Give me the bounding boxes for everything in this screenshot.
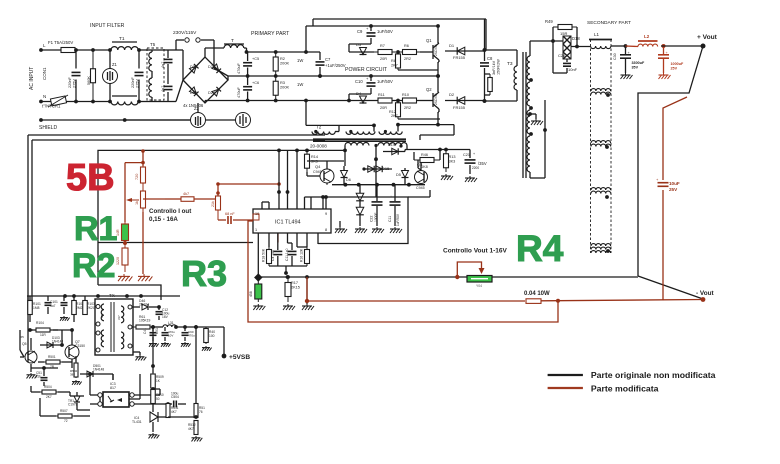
svg-text:20R: 20R [380, 57, 387, 61]
svg-text:21k: 21k [211, 201, 215, 207]
capacitor C51 [31, 366, 58, 386]
svg-text:R7: R7 [380, 44, 385, 48]
wire L line to T5 [139, 50, 152, 102]
diode D5 [396, 168, 409, 185]
resistor R46 1K8 [414, 150, 440, 170]
wire drive box [305, 197, 409, 244]
resistor R16 green [249, 277, 265, 310]
svg-text:R14: R14 [311, 155, 318, 159]
wire standby top rail [27, 294, 180, 298]
svg-text:1uF/50V: 1uF/50V [377, 29, 393, 34]
wire standby verticals [151, 325, 198, 398]
resistor R8 2K7 [391, 52, 438, 70]
svg-text:10nF: 10nF [568, 67, 578, 72]
svg-text:2R2: 2R2 [404, 57, 411, 61]
wire B+ rail riser [305, 26, 307, 52]
svg-text:Q4: Q4 [315, 164, 321, 169]
svg-text:C4 15n: C4 15n [271, 250, 275, 261]
varistor Z2 [125, 103, 206, 128]
svg-text:D3: D3 [356, 42, 362, 47]
resistor R13 3K3 [441, 150, 455, 181]
transformer T choke [205, 38, 247, 57]
ground TX [133, 352, 146, 360]
resistor R510 [151, 389, 164, 404]
resistor R10 2R2 [396, 93, 420, 110]
wire N line [39, 94, 110, 103]
wire opto right [134, 389, 160, 410]
svg-text:R16 12K: R16 12K [300, 248, 304, 262]
svg-text:R49: R49 [545, 19, 553, 24]
diode D14 [383, 143, 405, 155]
transformer T1 common-mode choke [111, 36, 138, 105]
capacitor C504 [153, 392, 186, 408]
resistor R7 20R [374, 44, 396, 61]
capacitor 68nF modified [218, 212, 253, 224]
inductor L2 modified [626, 34, 658, 47]
resistor R104 [28, 321, 58, 337]
svg-text:R13: R13 [449, 155, 456, 159]
svg-text:R10: R10 [402, 93, 409, 97]
wire T3 right side [530, 100, 547, 178]
svg-text:25V: 25V [671, 67, 678, 71]
svg-text:76: 76 [199, 410, 203, 414]
svg-text:PRIMARY PART: PRIMARY PART [251, 31, 290, 37]
svg-text:AC INPUT: AC INPUT [29, 67, 35, 90]
wire red to DTC [216, 182, 281, 193]
capacitor C30 3300uF [613, 44, 645, 79]
resistor R4 snubber [485, 74, 493, 95]
ground mid extra [302, 277, 314, 310]
svg-text:C91: C91 [155, 328, 159, 334]
resistor 21k modified [211, 191, 221, 220]
label POWER CIRCUIT [345, 67, 388, 73]
resistor R103 [83, 296, 96, 315]
inductor L31 [153, 321, 206, 329]
wire red sense [305, 277, 309, 303]
resistor 720 modified [135, 166, 146, 184]
potentiometer I out modified [126, 184, 146, 212]
svg-text:D2: D2 [449, 92, 455, 97]
transformer T3 [485, 41, 533, 178]
label R3 [181, 253, 227, 294]
svg-text:R46: R46 [421, 153, 428, 157]
wire primary top rail y52 [245, 50, 320, 54]
svg-text:D18: D18 [572, 36, 580, 41]
wire drive bottom right [408, 190, 430, 197]
wire standby left rail [27, 296, 29, 355]
svg-text:0.04 10W: 0.04 10W [524, 291, 550, 297]
svg-text:R17: R17 [291, 281, 298, 285]
svg-text:9: 9 [325, 212, 327, 216]
svg-text:C3150: C3150 [75, 344, 85, 348]
wire opto to control [100, 374, 140, 402]
svg-text:14R: 14R [116, 229, 120, 236]
svg-text:1uF/50V: 1uF/50V [396, 213, 400, 226]
ground drive left [335, 221, 347, 233]
svg-text:TX: TX [109, 293, 115, 298]
svg-text:1000uF: 1000uF [671, 62, 684, 66]
wire 5B rail [98, 149, 345, 286]
svg-text:470uF: 470uF [237, 63, 241, 74]
svg-text:CON1: CON1 [42, 67, 47, 80]
diode D1 FR155 [445, 43, 486, 60]
resistor R512 [168, 415, 202, 441]
transformer TX [95, 293, 133, 355]
resistor R3 200K [273, 76, 303, 101]
svg-text:458: 458 [249, 291, 253, 297]
svg-text:+: + [390, 195, 392, 199]
svg-text:1W: 1W [297, 82, 303, 87]
svg-text:C7: C7 [325, 57, 331, 62]
wire primary mid rail y76 [228, 74, 440, 80]
svg-text:35V: 35V [632, 66, 639, 70]
resistor R12 2K7 [389, 101, 440, 120]
svg-text:20R: 20R [380, 106, 387, 110]
capacitor C5 470uF [237, 52, 259, 76]
resistor R18 50K [262, 247, 272, 266]
wire L line [39, 43, 110, 52]
svg-text:200K: 200K [280, 61, 289, 66]
svg-text:Controllo Vout 1-16V: Controllo Vout 1-16V [443, 248, 507, 255]
svg-text:Z2: Z2 [194, 106, 200, 111]
svg-text:+: + [473, 152, 475, 156]
transistor Q2 [420, 76, 439, 119]
capacitor C12 [156, 305, 170, 320]
label SECONDARY PART [587, 20, 631, 26]
svg-text:2R2: 2R2 [404, 106, 411, 110]
capacitor C26 [553, 41, 578, 73]
capacitor C8 snubber [480, 19, 501, 103]
wire lower rail [348, 94, 350, 101]
svg-text:22u: 22u [36, 375, 42, 379]
diode D103 [40, 330, 64, 348]
resistor R6 2R2 [396, 44, 420, 61]
svg-text:8: 8 [325, 228, 327, 232]
capacitor C6 470uF [237, 76, 259, 101]
svg-text:1000F: 1000F [374, 213, 378, 222]
capacitor C4 15n [271, 243, 282, 266]
potentiometer Vout modified [455, 262, 492, 288]
resistor 4k7 modified [175, 192, 218, 201]
svg-text:L2: L2 [644, 34, 650, 39]
resistor R507 [40, 398, 90, 423]
transistor Q4 [307, 161, 344, 185]
resistor R2 1220 modified [116, 243, 128, 273]
svg-text:Parte originale non modificata: Parte originale non modificata [591, 370, 716, 380]
svg-text:SECONDARY PART: SECONDARY PART [587, 20, 631, 26]
wire red return loop [248, 221, 558, 322]
svg-text:4u7: 4u7 [50, 304, 56, 308]
svg-text:C10: C10 [355, 79, 363, 84]
resistor R49 15R [545, 19, 577, 47]
wire red rail 0.04 [307, 291, 550, 301]
svg-text:+ Vout: + Vout [697, 34, 718, 41]
zener D4 [356, 91, 367, 103]
svg-text:2K7: 2K7 [391, 114, 398, 118]
svg-text:4K7: 4K7 [188, 427, 194, 431]
capacitor C1 [68, 48, 81, 103]
component TL431 IC4 [132, 410, 168, 438]
svg-text:R504: R504 [44, 385, 52, 389]
svg-text:16V: 16V [162, 315, 169, 319]
wire to +Vout [661, 34, 718, 49]
svg-text:D6: D6 [346, 178, 351, 182]
svg-text:FR155: FR155 [453, 105, 466, 110]
svg-text:4n7: 4n7 [161, 86, 165, 92]
svg-text:10uF: 10uF [669, 181, 680, 186]
transistor Q3 [415, 160, 428, 190]
wire second top rail [306, 24, 440, 28]
capacitor C22 1000uF [370, 183, 385, 233]
wire red 4k7 line [143, 198, 175, 200]
svg-text:25V: 25V [669, 187, 678, 192]
capacitor C3 4n7 [152, 50, 173, 70]
svg-text:2K7: 2K7 [46, 395, 52, 399]
svg-text:R501: R501 [48, 355, 56, 359]
capacitor C9 [349, 26, 393, 52]
wire control line y277 [254, 273, 638, 281]
capacitor C11 1n0 [285, 243, 297, 266]
resistor R11 20R [374, 93, 396, 110]
svg-text:N: N [43, 94, 46, 99]
resistor R501 [38, 355, 72, 369]
svg-text:Controllo I out: Controllo I out [149, 208, 191, 215]
wire B+ top rail [313, 19, 486, 50]
svg-text:Q2: Q2 [426, 87, 432, 92]
resistor R102 [72, 296, 84, 322]
svg-text:4k7: 4k7 [183, 192, 189, 196]
capacitor C2 after choke [131, 48, 144, 103]
switch 230V/115V [173, 30, 228, 76]
svg-text:C30: C30 [613, 53, 617, 60]
fuse F1 [48, 40, 84, 53]
svg-text:470u: 470u [188, 334, 195, 338]
bridge rectifier D21 D22 D23 D24 [168, 50, 228, 108]
svg-text:1K8: 1K8 [421, 165, 428, 169]
svg-text:D4: D4 [356, 91, 362, 96]
svg-text:275V: 275V [73, 79, 77, 88]
transformer secondary winding column [591, 40, 612, 254]
resistor R502 [70, 356, 82, 385]
resistor R509 [151, 361, 164, 391]
varistor Z1 [103, 48, 118, 103]
label 5B [66, 157, 115, 199]
svg-text:T5: T5 [150, 42, 156, 47]
wire R1 junction line [98, 242, 253, 244]
diode D6 [341, 166, 351, 185]
svg-text:100u: 100u [171, 392, 179, 396]
svg-text:t°/NTCR1: t°/NTCR1 [42, 104, 61, 109]
svg-text:720: 720 [135, 174, 139, 180]
resistor R14 3K3 [305, 150, 318, 172]
wire red into IC1 [253, 220, 278, 243]
svg-text:+5VSB: +5VSB [229, 354, 250, 361]
optocoupler IC3 817 [88, 372, 134, 407]
wire mid rail stub [436, 74, 440, 78]
diode D501 [80, 364, 113, 380]
wire secondary node [530, 39, 563, 43]
svg-text:3nF/1kV: 3nF/1kV [492, 60, 496, 75]
capacitor C92 [181, 327, 195, 347]
svg-text:POWER CIRCUIT: POWER CIRCUIT [345, 67, 388, 73]
label PRIMARY PART [251, 31, 290, 37]
wire shield line [39, 118, 236, 131]
wire drive loop right [398, 119, 454, 140]
svg-text:1k: 1k [135, 201, 139, 205]
ground T3 secondary mid [528, 112, 543, 125]
transformer T2 core [310, 139, 406, 148]
svg-text:326: 326 [100, 313, 104, 318]
svg-text:R8: R8 [391, 59, 396, 63]
svg-text:220nF: 220nF [131, 77, 135, 88]
svg-text:IC1 TL494: IC1 TL494 [275, 220, 301, 226]
svg-text:TL431: TL431 [132, 420, 142, 424]
resistor R1 green modified [116, 222, 129, 243]
svg-text:2K15: 2K15 [291, 286, 300, 290]
wire 5B rail bottom [98, 285, 161, 300]
transformer T2 primary [304, 99, 402, 135]
zener D7 [355, 185, 367, 233]
wire drive bus [332, 183, 425, 187]
svg-text:L1: L1 [594, 32, 600, 37]
capacitor C11 out [388, 185, 402, 233]
wire outer box top [28, 135, 325, 310]
wire IC1 top pins [262, 150, 325, 209]
svg-text:T1: T1 [119, 36, 125, 42]
transistor Q1 [420, 26, 439, 76]
svg-text:C11: C11 [388, 216, 392, 222]
node AC input labels [29, 67, 47, 90]
capacitor C41 [143, 327, 159, 347]
svg-text:T3: T3 [507, 61, 513, 67]
wire standby feed [20, 330, 24, 357]
wire inner box top [32, 140, 325, 310]
svg-text:817: 817 [110, 386, 116, 390]
wire red rail to -Vout [541, 299, 703, 303]
svg-text:D14: D14 [388, 143, 395, 147]
svg-text:1W: 1W [297, 58, 303, 63]
svg-text:275V: 275V [136, 79, 140, 88]
svg-text:1uF/50V: 1uF/50V [377, 79, 393, 84]
capacitor C21 [463, 150, 487, 183]
resistor R504 [31, 385, 70, 399]
label R4 [516, 228, 564, 269]
svg-text:2M2: 2M2 [76, 306, 83, 310]
diode D46 2N104 [133, 299, 159, 310]
wire sec rail [405, 148, 470, 152]
capacitor C10 [349, 76, 393, 94]
wire D18 to L1 [571, 45, 590, 49]
capacitor C101 [45, 296, 59, 314]
wire drive verticals [324, 195, 328, 209]
svg-text:1220: 1220 [116, 257, 120, 265]
svg-text:R3: R3 [181, 253, 227, 294]
svg-text:68 nF: 68 nF [225, 212, 235, 216]
capacitor C32 10uF modified [655, 177, 680, 192]
svg-text:R4: R4 [516, 228, 564, 269]
svg-text:4K7: 4K7 [171, 410, 177, 414]
svg-text:50: 50 [156, 397, 160, 401]
resistor R40 [202, 327, 215, 351]
svg-text:D5: D5 [396, 173, 401, 177]
thermistor NTCR1 [42, 95, 68, 109]
svg-text:11R: 11R [40, 333, 46, 337]
capacitor C7 1uF/250V [316, 52, 346, 78]
resistor R2 200K [273, 52, 303, 76]
resistor R1 560K [87, 48, 96, 103]
svg-text:C9: C9 [357, 29, 363, 34]
svg-text:2200: 2200 [472, 166, 479, 170]
svg-text:T: T [231, 38, 234, 44]
transformer T5 second choke [147, 42, 164, 102]
ground red under R2 [118, 274, 132, 281]
svg-text:FR155: FR155 [453, 55, 466, 60]
transistor Q left [20, 335, 37, 378]
svg-text:R6: R6 [404, 44, 409, 48]
wire red pot to ground [142, 212, 144, 274]
resistor R16 12K [300, 247, 310, 266]
svg-text:C41: C41 [143, 328, 147, 334]
svg-text:220nF: 220nF [68, 77, 72, 88]
wire red tap from 5B rail [125, 149, 145, 166]
svg-text:3K3: 3K3 [449, 160, 456, 164]
svg-text:C8: C8 [487, 56, 493, 61]
svg-text:4n7: 4n7 [161, 62, 165, 68]
svg-text:D21: D21 [190, 65, 197, 69]
svg-text:382: 382 [70, 373, 75, 377]
svg-text:470uF: 470uF [237, 87, 241, 98]
svg-text:317: 317 [117, 315, 121, 320]
svg-text:5B: 5B [66, 157, 115, 199]
svg-text:C22: C22 [370, 216, 374, 222]
svg-text:15R: 15R [560, 31, 567, 36]
svg-text:3300uF: 3300uF [632, 61, 645, 65]
wire primary bottom rail y100 [205, 99, 420, 103]
wire red output branch [663, 97, 687, 301]
resistor R101 [28, 296, 41, 322]
svg-text:D1: D1 [449, 43, 455, 48]
svg-text:R2: R2 [72, 247, 115, 285]
svg-text:105K19: 105K19 [139, 319, 151, 323]
diode D2 FR155 [445, 92, 486, 110]
svg-text:D24: D24 [208, 91, 215, 95]
svg-text:C1978: C1978 [68, 403, 78, 407]
svg-text:C504: C504 [171, 395, 179, 399]
svg-text:1N4148: 1N4148 [93, 368, 104, 372]
svg-text:230V/115V: 230V/115V [173, 30, 197, 36]
inductor L1 [589, 32, 626, 49]
svg-text:C11 1n0: C11 1n0 [285, 248, 289, 261]
op-amp U1 IC1 TL494 [253, 209, 331, 233]
diode D15 [362, 166, 392, 172]
label R2 [72, 247, 115, 285]
resistor R17 2K15 [283, 275, 300, 310]
label Controllo I out [149, 208, 191, 223]
svg-text:Q5: Q5 [22, 342, 27, 346]
svg-text:10V: 10V [168, 334, 173, 338]
svg-text:INPUT FILTER: INPUT FILTER [90, 23, 125, 29]
svg-text:C21: C21 [463, 153, 470, 157]
resistor 0.04 10W modified [526, 299, 541, 304]
svg-text:+C5: +C5 [252, 57, 259, 61]
svg-text:C945: C945 [416, 186, 425, 190]
wire red vertical left [123, 163, 127, 245]
label Controllo Vout [443, 248, 507, 255]
svg-text:R507: R507 [60, 409, 68, 413]
svg-text:2K7: 2K7 [391, 64, 398, 68]
capacitor C31 1000uF modified [658, 44, 684, 79]
svg-text:D22: D22 [208, 65, 215, 69]
